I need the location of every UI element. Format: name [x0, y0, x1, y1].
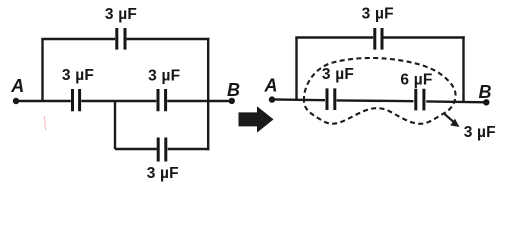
wire: left circuit main line second cap to B [167, 100, 232, 102]
wire: bottom rail left segment [115, 148, 157, 150]
capacitor C-top-left 3uF plates [117, 28, 125, 50]
svg-text:3 µF: 3 µF [322, 66, 354, 83]
svg-text:A: A [264, 75, 278, 95]
svg-text:3 µF: 3 µF [62, 67, 94, 84]
wire: right vertical from top rail through main line to bottom rail [207, 38, 209, 150]
wire: left circuit main line between middle caps [81, 100, 156, 102]
wire: right circuit right vertical [462, 36, 464, 101]
svg-text:3 µF: 3 µF [105, 6, 137, 23]
svg-text:A: A [10, 76, 24, 96]
wire: bottom rail right segment [168, 148, 210, 150]
capacitor C-top-right 3uF plates [375, 28, 382, 50]
wire: top rail right segment [127, 38, 210, 40]
wire: left circuit main line A to first cap [16, 100, 71, 102]
node A (left circuit) [13, 98, 19, 104]
wire: right circuit main line between caps [337, 99, 414, 102]
svg-text:6 µF: 6 µF [400, 72, 432, 89]
wire: junction vertical down to bottom rail [114, 101, 116, 149]
leader arrow from bean to 3 uF label [445, 114, 454, 122]
svg-text:B: B [479, 82, 492, 102]
svg-text:3 µF: 3 µF [147, 165, 179, 182]
node B (left circuit) [229, 98, 235, 104]
node B (right circuit) [483, 99, 489, 105]
wire: right circuit main line second cap to B [426, 100, 486, 103]
capacitor C-right1 3uF plates [327, 88, 335, 110]
svg-text:3 µF: 3 µF [464, 124, 496, 141]
wire: right circuit top rail right segment [383, 36, 464, 38]
wire: left vertical riser to top rail [41, 39, 43, 101]
capacitor C-mid1 3uF plates [73, 89, 80, 111]
svg-text:3 µF: 3 µF [362, 5, 394, 22]
wire: right circuit left vertical riser [295, 38, 297, 100]
capacitor C-right2 6uF plates [416, 89, 424, 111]
wire: right circuit main line A to first cap [272, 98, 325, 101]
wire: right circuit top rail left segment [295, 36, 373, 38]
dashed bean enclosure around series caps [304, 58, 456, 124]
wire: top rail left segment [41, 38, 115, 40]
capacitor C-mid2 3uF plates [158, 89, 166, 111]
faint scan mark [44, 116, 46, 130]
svg-text:3 µF: 3 µF [148, 67, 180, 84]
node A (right circuit) [269, 96, 275, 102]
block arrow between circuits [239, 106, 274, 132]
svg-text:B: B [227, 80, 240, 100]
capacitor C-bottom 3uF plates [158, 138, 166, 162]
